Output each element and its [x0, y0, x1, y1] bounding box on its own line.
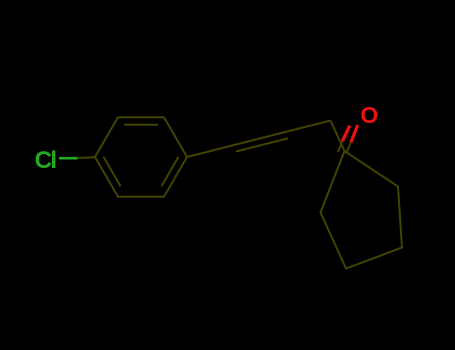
svg-text:O: O	[360, 102, 378, 128]
svg-text:Cl: Cl	[35, 147, 56, 174]
